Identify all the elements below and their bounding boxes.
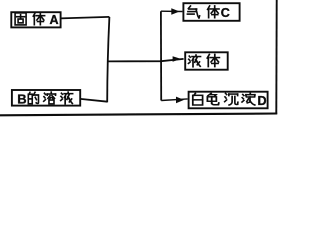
wire from Solution B box to merge vertical — [80, 99, 107, 102]
svg-text:D: D — [258, 94, 267, 108]
arrowhead to Liquid — [173, 56, 181, 62]
arrowhead to Gas C — [171, 8, 179, 15]
merge vertical wire (A down / B up) — [107, 17, 109, 102]
border right edge — [275, 0, 277, 114]
arrowhead to White precipitate D — [176, 97, 184, 104]
box Gas C (气体C) — [183, 3, 239, 21]
svg-text:C: C — [221, 6, 230, 20]
svg-text:A: A — [50, 13, 59, 27]
wire to Gas C — [161, 10, 183, 12]
svg-text:B: B — [17, 92, 26, 107]
border bottom edge — [0, 114, 277, 116]
wire to White precipitate D — [161, 99, 187, 101]
box Solution of B (B的溶液) — [12, 90, 80, 106]
distribution vertical wire — [160, 11, 162, 100]
middle wire from merge vertical to Liquid arrow — [107, 59, 183, 62]
box Liquid (液体) — [185, 52, 228, 69]
wire from Solid A box to merge vertical — [61, 17, 110, 19]
box White precipitate D (白色沉淀D) — [189, 92, 268, 109]
box Solid A (固体A) — [11, 12, 60, 27]
